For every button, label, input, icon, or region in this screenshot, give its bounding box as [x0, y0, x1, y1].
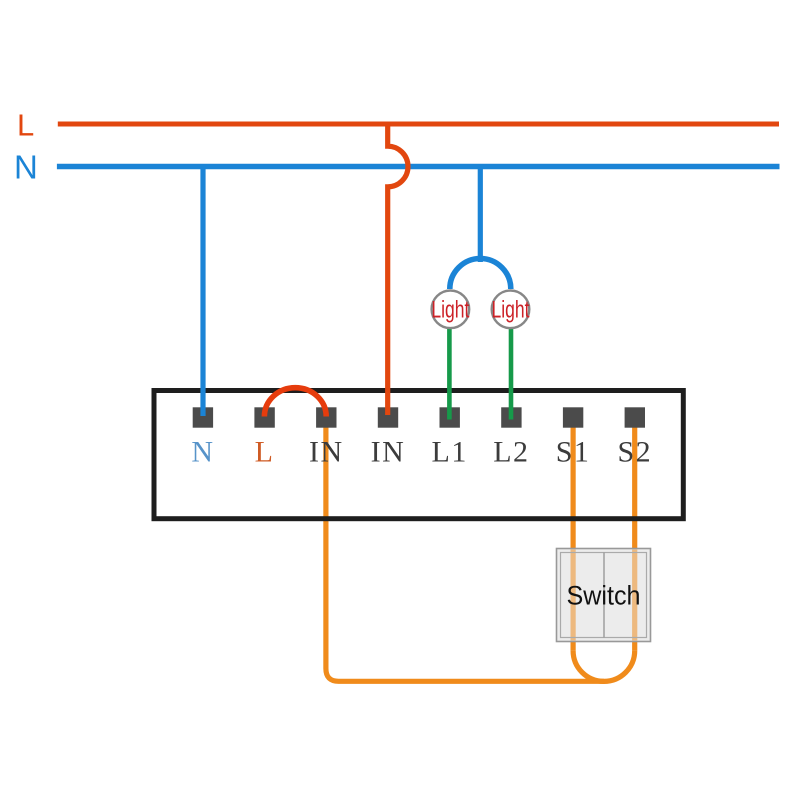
svg-text:S1: S1 — [556, 436, 591, 469]
wire orange U-turn below switch — [573, 651, 635, 682]
wire red drop from L with hop over N — [388, 124, 408, 415]
svg-text:IN: IN — [309, 436, 344, 469]
light bulb 2 circle — [492, 291, 530, 329]
wire orange IN drop to bottom run — [326, 417, 604, 681]
wire orange S2 muted behind switch — [632, 550, 637, 641]
wire orange S1 muted behind switch — [570, 550, 575, 641]
svg-text:N: N — [14, 148, 38, 185]
svg-text:Light: Light — [492, 297, 530, 324]
switch box fill — [557, 549, 651, 642]
svg-text:L: L — [17, 108, 34, 143]
device box — [154, 391, 683, 519]
terminal L — [254, 407, 274, 427]
terminal L1 — [440, 407, 460, 427]
wire L line (live) — [58, 122, 779, 127]
terminal IN1 — [316, 407, 336, 427]
svg-text:N: N — [191, 436, 214, 469]
wire orange S1 drop — [570, 417, 575, 651]
terminal L2 — [501, 407, 521, 427]
wire blue arch over lights — [450, 259, 511, 290]
svg-text:L1: L1 — [432, 436, 468, 469]
svg-text:Switch: Switch — [567, 581, 641, 611]
svg-text:Light: Light — [431, 297, 469, 324]
switch box divider — [603, 553, 605, 638]
svg-text:IN: IN — [371, 436, 406, 469]
svg-text:S2: S2 — [617, 436, 652, 469]
wire green L1 — [447, 324, 452, 420]
terminal S1 — [563, 407, 583, 427]
wire N line (neutral) — [57, 164, 780, 169]
terminal N — [193, 407, 213, 427]
light bulb 1 circle — [432, 291, 470, 329]
terminal IN2 — [378, 407, 398, 427]
wire red jumper arc L to IN1 — [264, 388, 326, 417]
switch box inner border — [561, 553, 647, 638]
svg-text:L2: L2 — [493, 436, 529, 469]
wire blue drop from N to terminal N — [200, 167, 205, 417]
terminal S2 — [625, 407, 645, 427]
wire orange S2 drop — [632, 417, 637, 651]
wire blue drop from N to lights arch — [478, 167, 483, 263]
svg-text:L: L — [255, 436, 275, 469]
wire green L2 — [509, 324, 514, 420]
